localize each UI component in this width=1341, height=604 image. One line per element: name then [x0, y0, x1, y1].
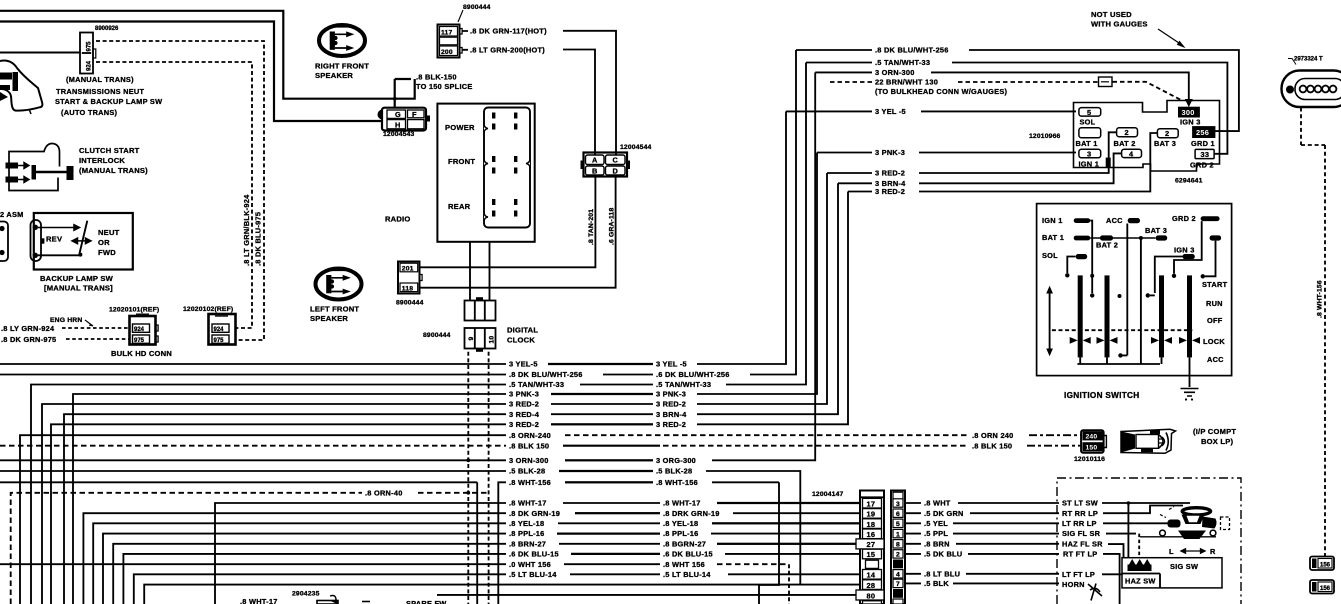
svg-text:12010116: 12010116: [1074, 456, 1105, 463]
wire .8 PPL-16 row: [103, 534, 861, 604]
svg-text:(MANUAL TRANS): (MANUAL TRANS): [66, 75, 134, 84]
svg-text:.8 WHT-17: .8 WHT-17: [240, 597, 278, 604]
wire .8 DK GRN-117(HOT): [462, 31, 616, 155]
wire .8 WHT-17 row: [215, 503, 861, 604]
svg-text:REAR: REAR: [448, 202, 471, 211]
wire .8 WHT-156 row: [0, 482, 779, 604]
svg-text:3 RED-2: 3 RED-2: [656, 400, 686, 409]
node dots on clock dashes: [466, 458, 470, 462]
wire 3 ORN-300 row: [0, 72, 815, 460]
svg-text:.5 LT BLU-14: .5 LT BLU-14: [663, 570, 711, 579]
svg-text:.8 WHT: .8 WHT: [924, 499, 951, 508]
svg-text:15: 15: [867, 550, 876, 559]
svg-text:NEUT: NEUT: [98, 228, 120, 237]
svg-text:ACC: ACC: [1106, 216, 1123, 225]
svg-text:924: 924: [134, 327, 145, 333]
svg-text:17: 17: [867, 499, 876, 508]
svg-text:200: 200: [441, 49, 453, 56]
svg-text:2: 2: [896, 552, 900, 559]
svg-text:HAZ FL SR: HAZ FL SR: [1062, 540, 1103, 549]
wafer bar 4: [1187, 275, 1192, 357]
svg-text:.8 DK GRN-117(HOT): .8 DK GRN-117(HOT): [470, 27, 547, 36]
svg-text:.8 PPL-16: .8 PPL-16: [663, 529, 699, 538]
SECTION: top-left transmission switch area: [0, 11, 415, 358]
pin 2 BAT 3: [1157, 129, 1178, 138]
wire .8 LT BLU row: [905, 573, 1059, 575]
SECTION: right edge: [1310, 557, 1334, 594]
wire 3 RED-2 top: [827, 132, 1117, 173]
svg-text:.5 DK BLU: .5 DK BLU: [924, 550, 962, 559]
wire dashed 975 run: [96, 62, 252, 328]
sig sw mechanism: [1127, 501, 1230, 558]
svg-text:OR: OR: [98, 238, 110, 247]
wire 3 RED-2 second row: [51, 192, 848, 604]
svg-text:.8 BRN: .8 BRN: [924, 539, 950, 548]
wire .5 TAN/WHT-33 top: [806, 63, 1227, 154]
svg-text:(I/P COMPT: (I/P COMPT: [1193, 427, 1236, 436]
connector 12020101 (bulkhead ref): [109, 307, 159, 345]
svg-text:2973324 T: 2973324 T: [1294, 57, 1323, 63]
wafer bar 3: [1159, 275, 1164, 357]
svg-text:GRD 1: GRD 1: [1191, 139, 1215, 148]
svg-text:TO 150 SPLICE: TO 150 SPLICE: [416, 82, 473, 91]
svg-text:.8 ORN 240: .8 ORN 240: [972, 431, 1014, 440]
pin 256 GRD 1: [1193, 127, 1215, 138]
svg-text:BAT 3: BAT 3: [1154, 139, 1176, 148]
svg-text:.5 TAN/WHT-33: .5 TAN/WHT-33: [875, 58, 930, 67]
svg-text:8900444: 8900444: [396, 300, 424, 307]
svg-text:.8 DK GRN-975: .8 DK GRN-975: [1, 335, 56, 344]
svg-text:.6 GRA-118: .6 GRA-118: [609, 208, 616, 245]
svg-text:[MANUAL TRANS]: [MANUAL TRANS]: [44, 284, 113, 293]
svg-text:RT RR LP: RT RR LP: [1062, 509, 1098, 518]
svg-text:16: 16: [867, 530, 876, 539]
svg-text:(MANUAL TRANS): (MANUAL TRANS): [79, 166, 148, 175]
svg-text:SIG FL SR: SIG FL SR: [1062, 529, 1101, 538]
connector 12004147 column 2: [891, 491, 905, 604]
svg-text:INTERLOCK: INTERLOCK: [79, 156, 125, 165]
svg-text:.5 PPL: .5 PPL: [924, 529, 948, 538]
svg-text:3 PNK-3: 3 PNK-3: [656, 390, 686, 399]
svg-text:118: 118: [402, 285, 413, 292]
wire to 8900926 connector: [0, 52, 80, 54]
svg-text:BAT 2: BAT 2: [1114, 139, 1136, 148]
svg-text:LOCK: LOCK: [1203, 337, 1225, 346]
svg-text:.8 BGRN-27: .8 BGRN-27: [663, 539, 706, 548]
svg-text:.8 BLK 150: .8 BLK 150: [509, 441, 549, 450]
svg-text:.8 LT GRN-200(HOT): .8 LT GRN-200(HOT): [470, 45, 545, 54]
svg-text:8: 8: [896, 542, 900, 549]
wire dashed 924 run: [96, 41, 264, 340]
svg-text:8900926: 8900926: [95, 26, 119, 32]
svg-text:POWER: POWER: [445, 123, 475, 132]
svg-text:.8 YEL-18: .8 YEL-18: [663, 519, 698, 528]
wire 22 BRN/WHT 130 dashed: [830, 81, 872, 83]
svg-text:3 ORN-300: 3 ORN-300: [509, 456, 549, 465]
terminal BAT 2 (bar on line): [1100, 235, 1113, 240]
svg-text:156: 156: [1320, 586, 1331, 592]
svg-text:12020101(REF): 12020101(REF): [109, 307, 159, 314]
svg-text:BULK HD CONN: BULK HD CONN: [111, 349, 172, 358]
wire .6 DK BLU-15 row: [123, 554, 860, 604]
sig sw inner box: [1122, 558, 1222, 588]
wafer bar 2: [1105, 275, 1110, 357]
svg-text:.5 TAN/WHT-33: .5 TAN/WHT-33: [509, 380, 564, 389]
svg-text:.8 YEL-18: .8 YEL-18: [509, 519, 544, 528]
svg-text:SOL: SOL: [1042, 251, 1058, 260]
svg-text:3 YEL -5: 3 YEL -5: [875, 107, 906, 116]
svg-text:.8 DK BLU-975: .8 DK BLU-975: [254, 212, 263, 266]
svg-text:8900444: 8900444: [423, 332, 451, 339]
svg-text:.8 LT BLU: .8 LT BLU: [924, 569, 960, 578]
svg-text:LT RR LP: LT RR LP: [1062, 519, 1097, 528]
svg-text:CLOCK: CLOCK: [507, 336, 535, 345]
svg-text:2: 2: [1125, 128, 1129, 137]
svg-text:GRD 2: GRD 2: [1190, 161, 1214, 170]
svg-text:3 PNK-3: 3 PNK-3: [875, 148, 905, 157]
svg-text:33: 33: [1201, 150, 1210, 159]
wire 3 ORN-300 top: [815, 72, 1189, 100]
svg-text:B: B: [592, 167, 598, 176]
SECTION: radio / speakers: [310, 4, 652, 604]
svg-text:3 YEL -5: 3 YEL -5: [656, 360, 687, 369]
svg-text:3 RED-2: 3 RED-2: [509, 420, 539, 429]
svg-text:3 YEL-5: 3 YEL-5: [509, 360, 538, 369]
svg-text:.8 WHT-156: .8 WHT-156: [1317, 280, 1324, 318]
svg-text:6294641: 6294641: [1175, 178, 1203, 185]
svg-text:12004544: 12004544: [620, 144, 652, 151]
svg-text:28: 28: [867, 581, 876, 590]
svg-text:.5 BLK: .5 BLK: [924, 579, 949, 588]
svg-text:ENG HRN: ENG HRN: [50, 317, 82, 324]
wire .8 TAN-201 (B down): [420, 177, 596, 268]
wire dashed clock pin 10: [488, 352, 490, 604]
svg-text:LT FT LP: LT FT LP: [1062, 570, 1095, 579]
svg-text:BACKUP LAMP SW: BACKUP LAMP SW: [40, 274, 114, 283]
svg-text:.8 TAN-201: .8 TAN-201: [588, 209, 595, 245]
svg-text:R: R: [1210, 547, 1216, 556]
wafer bar 1: [1078, 275, 1083, 357]
svg-text:3 RED-4: 3 RED-4: [509, 410, 540, 419]
transmission neutral switch body (cut at left edge): [0, 61, 42, 114]
svg-text:.8 WHT-17: .8 WHT-17: [509, 499, 547, 508]
svg-text:12004543: 12004543: [383, 131, 415, 138]
svg-text:IGNITION SWITCH: IGNITION SWITCH: [1064, 391, 1139, 400]
svg-text:12004147: 12004147: [812, 491, 844, 498]
svg-text:.8 WHT-17: .8 WHT-17: [663, 499, 701, 508]
svg-text:FRONT: FRONT: [448, 157, 475, 166]
wire 3 PNK-3 row: [73, 153, 817, 604]
svg-text:.8 PPL-16: .8 PPL-16: [509, 529, 545, 538]
svg-text:.5 TAN/WHT-33: .5 TAN/WHT-33: [656, 380, 711, 389]
svg-text:.8 BLK-150: .8 BLK-150: [416, 73, 457, 82]
svg-text:10: 10: [488, 336, 495, 344]
svg-text:.8 LY GRN-924: .8 LY GRN-924: [1, 324, 55, 333]
svg-text:924: 924: [87, 60, 93, 71]
wire 3 RED-2 bat3: [848, 133, 1157, 192]
svg-text:3 BRN-4: 3 BRN-4: [656, 410, 687, 419]
svg-text:BAT 1: BAT 1: [1042, 233, 1064, 242]
wire dashes into 12020101: [62, 328, 129, 339]
wire .8 ORN-40 dashed row: [11, 493, 489, 604]
wire .5 BLK row: [905, 582, 1059, 584]
svg-text:SPEAKER: SPEAKER: [315, 71, 353, 80]
svg-text:3 ORN-300: 3 ORN-300: [875, 68, 915, 77]
svg-text:L: L: [1169, 547, 1174, 556]
haz sw contacts: [1128, 559, 1152, 571]
svg-text:NOT USED: NOT USED: [1091, 10, 1132, 19]
wire 3 YEL -5 top: [786, 110, 1076, 112]
wire row to cell 28: [144, 585, 860, 604]
connector 8900926 (924/975): [80, 26, 119, 74]
svg-text:300: 300: [1182, 108, 1195, 117]
bottom link wire: [1077, 363, 1160, 365]
svg-text:.6 DK BLU/WHT-256: .6 DK BLU/WHT-256: [656, 370, 730, 379]
pin 300 IGN 3: [1179, 107, 1200, 116]
svg-text:.8 DRK GRN-19: .8 DRK GRN-19: [663, 509, 720, 518]
svg-text:4: 4: [1129, 149, 1134, 158]
svg-text:.8 ORN-240: .8 ORN-240: [509, 431, 551, 440]
svg-text:.5 YEL: .5 YEL: [924, 519, 948, 528]
dash-dot boundary box: [1057, 478, 1241, 604]
svg-text:.8 WHT-156: .8 WHT-156: [656, 478, 698, 487]
svg-text:7: 7: [896, 581, 900, 588]
svg-text:.0 WHT 156: .0 WHT 156: [509, 560, 551, 569]
connector 156 upper: [1310, 557, 1334, 571]
svg-text:IGN 3: IGN 3: [1180, 118, 1201, 127]
svg-text:RADIO: RADIO: [385, 215, 410, 224]
connector inline (gauges): [1099, 77, 1113, 87]
svg-text:.8 ORN-40: .8 ORN-40: [365, 488, 403, 497]
svg-text:8900444: 8900444: [463, 4, 491, 11]
wire .5 TAN/WHT-33 row: [31, 63, 806, 604]
wire .8 LT GRN-200(HOT): [462, 50, 595, 156]
svg-text:201: 201: [402, 266, 414, 273]
svg-text:.8 WHT 156: .8 WHT 156: [663, 560, 705, 569]
connector 12004544 (A C B D): [581, 144, 652, 177]
ignition switch box: [1037, 204, 1232, 376]
svg-text:9: 9: [468, 337, 475, 341]
svg-text:BAT 2: BAT 2: [1096, 241, 1118, 250]
svg-text:3 RED-2: 3 RED-2: [509, 400, 539, 409]
wire .8 BLK 150 row: [0, 445, 506, 447]
dashed lock line: [1052, 329, 1192, 331]
svg-text:.8 WHT-156: .8 WHT-156: [509, 478, 551, 487]
SECTION: top right risers and block: [786, 10, 1341, 556]
connector 156 lower: [1310, 580, 1334, 594]
pin 33 GRD 2: [1195, 149, 1214, 158]
connector 12004147 column 1: [812, 491, 884, 604]
svg-text:5: 5: [896, 521, 900, 528]
wire .5 LT BLU-14 row: [134, 574, 861, 604]
svg-text:.6 DK BLU-15: .6 DK BLU-15: [509, 550, 559, 559]
svg-text:.8 LT GRN/BLK-924: .8 LT GRN/BLK-924: [242, 194, 251, 266]
wire 3 BRN-4 row: [64, 183, 838, 604]
svg-text:ACC: ACC: [1207, 355, 1224, 364]
connector 12004543 (G F H): [378, 108, 431, 138]
svg-text:H: H: [395, 121, 401, 130]
connector 12010116 (240/150): [1074, 430, 1106, 463]
svg-text:D: D: [613, 167, 619, 176]
svg-text:RIGHT FRONT: RIGHT FRONT: [315, 61, 369, 70]
svg-text:5: 5: [1087, 108, 1091, 117]
svg-text:RT FT LP: RT FT LP: [1063, 550, 1097, 559]
svg-text:80: 80: [867, 591, 876, 600]
svg-text:22 BRN/WHT 130: 22 BRN/WHT 130: [875, 78, 938, 87]
wire speaker feed 2 (to radio H): [0, 22, 382, 122]
svg-text:RUN: RUN: [1206, 299, 1223, 308]
key black block: [1106, 158, 1111, 168]
backup lamp switch box: [31, 213, 133, 270]
svg-text:12010966: 12010966: [1029, 133, 1061, 140]
wire .8 YEL-18 row: [93, 523, 860, 604]
svg-text:C: C: [613, 156, 619, 165]
wire .5 PPL row: [905, 533, 1059, 535]
svg-text:2 ASM: 2 ASM: [0, 210, 24, 219]
connector 8900444 (117/200): [438, 4, 491, 58]
wire .8 WHT 156 row: [0, 563, 660, 565]
connector 2973324 (right top, cut): [1282, 57, 1341, 108]
svg-text:.5 DK GRN: .5 DK GRN: [924, 509, 964, 518]
svg-text:G: G: [395, 110, 401, 119]
wire 3 YEL-5 row: [0, 111, 786, 364]
svg-text:2904235: 2904235: [292, 591, 320, 598]
svg-text:START: START: [1202, 280, 1228, 289]
wire .8 DK GRN-19 row: [83, 513, 860, 604]
travel arrow: [1049, 292, 1051, 351]
pin 5 SOL: [1079, 108, 1101, 117]
connector 8900444 (201/118): [396, 262, 424, 307]
svg-text:SIG SW: SIG SW: [1170, 562, 1198, 571]
right front speaker icon: [315, 24, 369, 80]
wire .8 ORN-240 row: [20, 435, 506, 604]
radio internal connector: [484, 108, 530, 228]
svg-text:IGN 1: IGN 1: [1079, 160, 1100, 169]
svg-text:924: 924: [214, 327, 225, 333]
pin 3 IGN 1: [1079, 149, 1101, 158]
svg-text:SPEAKER: SPEAKER: [310, 314, 348, 323]
svg-text:12020102(REF): 12020102(REF): [183, 306, 233, 313]
wire .6 GRA-118 (D down): [420, 177, 616, 288]
svg-text:HORN: HORN: [1062, 580, 1085, 589]
svg-text:117: 117: [441, 29, 452, 36]
lamp I/P compartment box: [1121, 429, 1176, 453]
connector stub at left edge: [0, 222, 8, 262]
svg-text:.8 DK GRN-19: .8 DK GRN-19: [509, 509, 560, 518]
svg-text:240: 240: [1086, 434, 1098, 441]
SECTION: middle wire rows: [0, 50, 1081, 604]
svg-text:975: 975: [134, 338, 145, 344]
svg-text:SOL: SOL: [1080, 118, 1096, 127]
svg-text:CLUTCH START: CLUTCH START: [79, 146, 140, 155]
svg-text:150: 150: [1086, 445, 1098, 452]
svg-text:START & BACKUP LAMP SW: START & BACKUP LAMP SW: [55, 97, 162, 106]
connector 8900444 digital clock half: [423, 326, 538, 352]
contact arrows on bars: [1070, 337, 1200, 344]
svg-text:.5 LT BLU-14: .5 LT BLU-14: [509, 570, 557, 579]
wire 3 RED-2 row: [42, 173, 827, 604]
svg-text:3 RED-2: 3 RED-2: [875, 187, 905, 196]
wire .5 BLK-28 row: [0, 471, 800, 585]
svg-text:LEFT FRONT: LEFT FRONT: [310, 305, 359, 314]
connector block 6294641 outline: [1074, 101, 1220, 172]
svg-text:REV: REV: [46, 235, 63, 244]
svg-text:WITH GAUGES: WITH GAUGES: [1091, 20, 1148, 29]
svg-text:DIGITAL: DIGITAL: [507, 326, 538, 335]
svg-text:3: 3: [896, 501, 900, 508]
svg-text:975: 975: [87, 41, 93, 52]
svg-text:18: 18: [867, 520, 876, 529]
junction on bat line: [1139, 236, 1143, 240]
svg-text:.8 BRN-27: .8 BRN-27: [509, 539, 546, 548]
svg-text:A: A: [592, 156, 598, 165]
wire dashed clock pin 9: [467, 352, 469, 604]
wire .5 YEL row: [905, 522, 1059, 524]
svg-text:3 ORG-300: 3 ORG-300: [656, 456, 696, 465]
node splice dot: [393, 97, 397, 101]
connector 8900444 radio-clock upper half: [465, 297, 496, 320]
wire to ground: [1189, 357, 1191, 387]
svg-text:BAT 1: BAT 1: [1076, 139, 1098, 148]
svg-text:IGN 3: IGN 3: [1174, 246, 1195, 255]
left front speaker icon: [310, 268, 362, 323]
svg-text:TRANSMISSIONS NEUT: TRANSMISSIONS NEUT: [56, 87, 145, 96]
svg-text:156: 156: [1320, 562, 1331, 568]
svg-text:SPARE FW: SPARE FW: [406, 599, 446, 604]
radio box: [385, 104, 535, 242]
svg-text:FWD: FWD: [98, 248, 116, 257]
connector 12020102 (bulkhead ref): [183, 306, 236, 345]
svg-text:.8 BLK 150: .8 BLK 150: [972, 441, 1012, 450]
svg-text:.8 DK BLU/WHT-256: .8 DK BLU/WHT-256: [509, 370, 583, 379]
terminal START pin: [1210, 235, 1222, 240]
svg-text:BAT 3: BAT 3: [1145, 226, 1167, 235]
wire .5 DK GRN row: [905, 512, 1059, 514]
svg-text:OFF: OFF: [1207, 316, 1223, 325]
clutch start interlock symbol: [6, 144, 74, 191]
wire radio to clock connector verticals: [470, 242, 490, 301]
svg-text:19: 19: [867, 510, 876, 519]
svg-text:.8 DK BLU/WHT-256: .8 DK BLU/WHT-256: [875, 46, 949, 55]
svg-text:GRD 2: GRD 2: [1172, 214, 1196, 223]
wire .8 BRN row: [905, 543, 1059, 545]
svg-text:ST LT SW: ST LT SW: [1062, 499, 1098, 508]
pin blank BAT 1: [1079, 128, 1101, 138]
svg-text:3 RED-2: 3 RED-2: [656, 420, 686, 429]
svg-text:3 PNK-3: 3 PNK-3: [509, 390, 539, 399]
svg-text:(TO BULKHEAD CONN W/GAUGES): (TO BULKHEAD CONN W/GAUGES): [875, 87, 1008, 96]
svg-text:6: 6: [896, 511, 900, 518]
svg-text:3 RED-2: 3 RED-2: [875, 169, 905, 178]
wire .8 DK BLU/WHT-256 top: [796, 50, 1239, 131]
svg-text:HAZ SW: HAZ SW: [1125, 577, 1156, 586]
wire .8 BRN-27 row: [113, 544, 856, 604]
svg-text:256: 256: [1196, 128, 1209, 137]
ground symbol: [1181, 389, 1199, 401]
svg-text:BOX LP): BOX LP): [1201, 437, 1233, 446]
svg-text:27: 27: [867, 540, 876, 549]
wire speaker feed 1 (top line to radio G): [0, 11, 415, 108]
wire .8 DK BLU/WHT-256 row: [0, 50, 796, 375]
svg-text:(AUTO TRANS): (AUTO TRANS): [61, 108, 118, 117]
svg-text:.5 BLK-28: .5 BLK-28: [509, 467, 545, 476]
svg-text:IGN 1: IGN 1: [1042, 216, 1063, 225]
wire dashed .8 WHT-156 right edge: [1301, 108, 1325, 557]
svg-text:F: F: [412, 110, 417, 119]
svg-text:14: 14: [867, 571, 876, 580]
svg-text:.6 DK BLU-15: .6 DK BLU-15: [663, 550, 713, 559]
svg-text:1: 1: [896, 531, 900, 538]
